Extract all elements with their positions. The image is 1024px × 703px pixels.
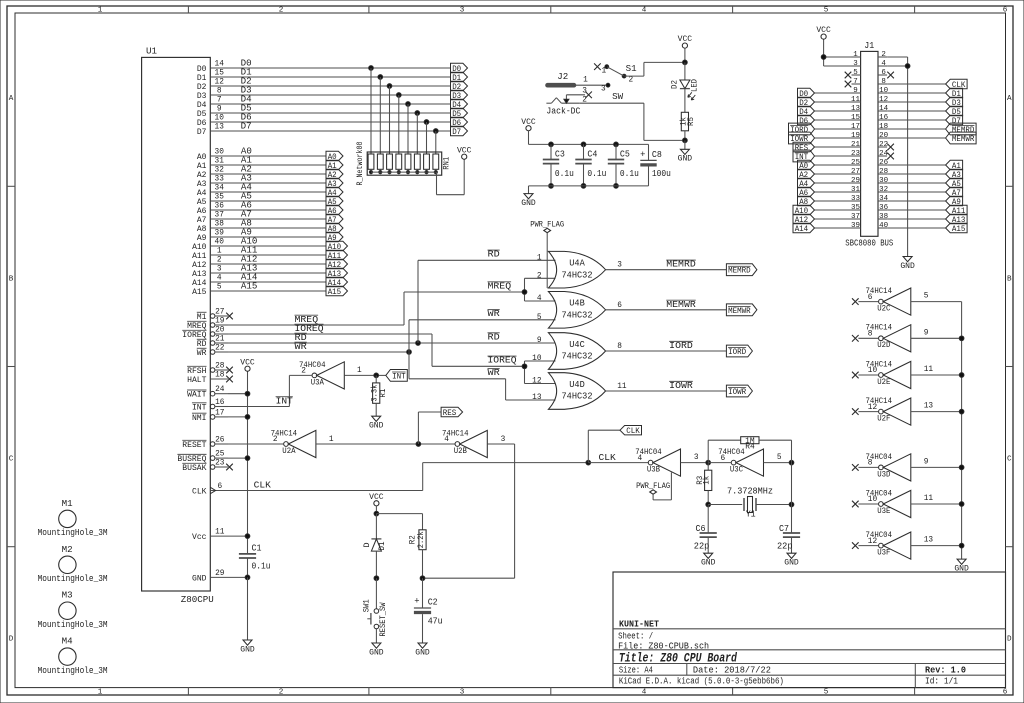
wire IORD to J1 — [815, 128, 852, 130]
junction — [789, 460, 794, 465]
svg-text:10: 10 — [215, 114, 225, 122]
wire D2 to RN1 — [389, 86, 391, 154]
wire U2B in — [423, 444, 515, 578]
wire A10 to J1 — [815, 209, 852, 211]
svg-text:A15: A15 — [328, 287, 342, 297]
svg-text:20: 20 — [215, 326, 225, 334]
svg-text:R4: R4 — [745, 441, 755, 451]
svg-text:C3: C3 — [555, 149, 565, 159]
wire to GND rail — [911, 503, 962, 505]
wire A11 — [228, 254, 326, 256]
svg-text:2: 2 — [273, 436, 278, 444]
svg-text:GND: GND — [192, 573, 207, 583]
svg-text:10: 10 — [868, 367, 878, 375]
wire nc — [858, 301, 878, 303]
svg-text:MEMRD: MEMRD — [666, 260, 696, 270]
svg-text:26: 26 — [879, 159, 889, 167]
global label A15 — [946, 223, 968, 234]
global label A2 — [326, 169, 343, 180]
svg-text:3: 3 — [460, 689, 465, 697]
global label A9 — [326, 232, 343, 243]
svg-text:INT: INT — [192, 402, 207, 412]
U4D pin 13 — [532, 394, 542, 402]
or-gate U4C 74HC32 — [548, 333, 622, 370]
svg-text:1k: 1k — [680, 117, 688, 126]
wire D3 — [228, 94, 451, 96]
svg-text:D7: D7 — [241, 121, 252, 131]
svg-text:7: 7 — [217, 96, 222, 104]
label A14 — [241, 272, 258, 282]
global label A3 — [326, 178, 343, 189]
crystal Y1 7.3728MHz — [708, 486, 791, 519]
svg-text:32: 32 — [879, 186, 888, 194]
wire D4 to J1 — [815, 110, 852, 112]
svg-text:HALT: HALT — [187, 375, 206, 385]
label MEMWR — [666, 300, 696, 310]
global label D3 — [946, 97, 963, 108]
wire A5 from J1 — [887, 182, 946, 184]
svg-text:10: 10 — [868, 496, 878, 504]
global label A14 — [326, 277, 348, 288]
junction — [581, 184, 586, 189]
junction — [420, 576, 425, 581]
wire S1 to VCC — [624, 62, 685, 76]
wire to GND rail — [911, 337, 962, 339]
svg-text:9: 9 — [217, 105, 222, 113]
junction — [369, 66, 374, 71]
U1 pin 9 D5 — [197, 105, 228, 119]
label A15 — [241, 281, 258, 291]
label D1 — [241, 67, 252, 77]
label A7 — [241, 209, 252, 219]
svg-text:6: 6 — [217, 483, 222, 491]
svg-text:15: 15 — [851, 114, 861, 122]
svg-text:13: 13 — [924, 537, 934, 545]
svg-text:6: 6 — [868, 294, 873, 302]
U2A pin 1 label — [329, 436, 334, 444]
wire D7 from J1 — [887, 119, 946, 121]
wire J1 GND — [887, 57, 908, 257]
IC U1 Z80CPU body — [142, 46, 214, 605]
svg-text:C1: C1 — [252, 544, 262, 554]
global label D1 — [451, 72, 468, 83]
svg-text:6: 6 — [617, 302, 622, 310]
svg-text:U2D: U2D — [877, 340, 890, 350]
wire U3C in — [764, 462, 792, 464]
capacitor C6 22p — [694, 505, 717, 554]
svg-text:B: B — [1007, 275, 1012, 283]
global label A5 — [326, 196, 343, 207]
inverter U3D 74HC04 — [866, 452, 911, 481]
wire A0 to J1 — [815, 164, 852, 166]
svg-text:2: 2 — [537, 272, 542, 280]
label A3 — [241, 173, 252, 183]
svg-text:4: 4 — [444, 436, 449, 444]
svg-text:5: 5 — [824, 7, 829, 15]
svg-text:23: 23 — [851, 150, 861, 158]
svg-text:A15: A15 — [952, 224, 966, 234]
svg-text:2: 2 — [279, 689, 284, 697]
svg-text:39: 39 — [215, 229, 225, 237]
svg-text:11: 11 — [851, 96, 861, 104]
U1 pin 2 A12 — [192, 256, 228, 270]
junction — [789, 502, 794, 507]
svg-text:5: 5 — [217, 283, 222, 291]
junction — [821, 55, 826, 60]
svg-text:5: 5 — [777, 454, 782, 462]
U1 pin 36 A6 — [197, 202, 228, 216]
svg-text:A: A — [1007, 95, 1012, 103]
inverter U2B 74HC14 — [442, 428, 487, 457]
svg-text:20: 20 — [879, 132, 889, 140]
svg-text:0.1u: 0.1u — [587, 169, 606, 179]
svg-text:16: 16 — [215, 399, 225, 407]
global label A7 — [946, 187, 963, 198]
global label A10 — [326, 241, 348, 252]
svg-text:8: 8 — [881, 78, 886, 86]
svg-text:MountingHole_3M: MountingHole_3M — [38, 620, 108, 630]
svg-text:14: 14 — [215, 60, 225, 68]
svg-text:3.3k: 3.3k — [372, 384, 380, 401]
junction — [614, 184, 619, 189]
svg-text:Rev: 1.0: Rev: 1.0 — [925, 664, 966, 675]
junction — [245, 575, 250, 580]
junction — [959, 502, 964, 507]
svg-text:74HC32: 74HC32 — [562, 310, 593, 320]
wire CLK from U1 — [228, 463, 588, 491]
global label MEMRD — [946, 123, 977, 135]
ground at C7 — [784, 553, 799, 567]
label A0 — [241, 146, 252, 156]
global label D7 — [451, 126, 468, 137]
wire D3 to RN1 — [398, 95, 400, 154]
junction — [415, 111, 420, 116]
svg-text:1: 1 — [583, 77, 588, 85]
global label IOWR — [789, 132, 815, 144]
inverter U3A 74HC04 — [299, 360, 344, 389]
svg-text:28: 28 — [215, 362, 225, 370]
wire A9 — [228, 236, 326, 238]
svg-text:2: 2 — [881, 51, 886, 59]
wire D2 — [228, 85, 451, 87]
svg-text:+: + — [640, 150, 645, 160]
resistor R1 3.3k — [372, 375, 388, 416]
label A4 — [241, 182, 252, 192]
svg-text:34: 34 — [215, 184, 225, 192]
svg-text:J2: J2 — [557, 72, 568, 82]
global label A8 — [798, 196, 815, 207]
svg-text:3: 3 — [601, 85, 606, 93]
svg-text:D7: D7 — [197, 127, 207, 137]
global label A6 — [798, 187, 815, 198]
resistor R3 1k — [697, 463, 712, 505]
wire CLK from J1 — [887, 83, 946, 85]
U1 pin 18 HALT — [187, 371, 233, 385]
svg-text:M3: M3 — [62, 591, 73, 601]
U2E pin 11 label — [924, 366, 934, 374]
wire D3 from J1 — [887, 101, 946, 103]
U3C pin 5 label — [777, 454, 782, 462]
wire A2 — [228, 173, 326, 175]
svg-text:13: 13 — [532, 394, 542, 402]
wire MEMRD — [606, 269, 727, 271]
svg-text:34: 34 — [879, 195, 889, 203]
connector J1 SBC8080 BUS — [845, 41, 893, 248]
capacitor C4 0.1u — [575, 144, 606, 186]
svg-text:2: 2 — [629, 77, 634, 85]
svg-text:74HC32: 74HC32 — [562, 352, 593, 362]
U1 pin 37 A7 — [197, 211, 228, 225]
svg-text:27: 27 — [851, 168, 860, 176]
wire C7 node — [791, 463, 793, 533]
inverter U3B 74HC04 — [635, 447, 680, 476]
U1 pin 30 A0 — [197, 148, 228, 162]
U3D pin 9 label — [924, 458, 929, 466]
junction — [522, 364, 527, 369]
wire U2A in — [316, 443, 455, 445]
U1 pin 1 A11 — [192, 247, 228, 261]
wire A1 — [228, 164, 326, 166]
global label A3 — [946, 169, 963, 180]
no-connect — [852, 501, 859, 508]
label D3 — [241, 85, 252, 95]
svg-text:9: 9 — [924, 329, 929, 337]
global label A15 — [326, 286, 348, 297]
wire D6 to J1 — [815, 119, 852, 121]
svg-text:U2B: U2B — [454, 446, 467, 456]
wire RES to J1 — [815, 146, 852, 148]
svg-text:26: 26 — [215, 436, 225, 444]
junction — [683, 138, 688, 143]
svg-text:12: 12 — [532, 378, 542, 386]
svg-text:D7: D7 — [452, 127, 461, 137]
svg-text:INT: INT — [392, 371, 406, 381]
svg-text:11: 11 — [924, 366, 934, 374]
svg-text:Jack-DC: Jack-DC — [546, 107, 581, 117]
capacitor C5 0.1u — [608, 144, 639, 186]
no-connect J2 pin3 — [585, 92, 592, 99]
svg-text:KiCad E.D.A. kicad (5.0.0-3-g: KiCad E.D.A. kicad (5.0.0-3-g5ebb6b6) — [619, 677, 784, 687]
global label A13 — [326, 268, 348, 279]
capacitor C2 47u — [414, 578, 443, 643]
power flag PWR_FLAG — [530, 220, 564, 289]
wire D5 to RN1 — [416, 113, 418, 154]
svg-text:C6: C6 — [696, 524, 706, 534]
U1 pin 4 A14 — [192, 274, 228, 288]
U1 pin 31 A1 — [197, 157, 228, 171]
global label CLK — [946, 79, 968, 90]
svg-text:3: 3 — [617, 262, 622, 270]
wire cap rail bottom — [529, 186, 649, 194]
label A2 — [241, 164, 252, 174]
global label RES — [441, 407, 463, 418]
U1 pin 15 D1 — [197, 69, 228, 83]
svg-text:2: 2 — [279, 7, 284, 15]
svg-text:U4C: U4C — [569, 340, 585, 350]
global label A5 — [946, 178, 963, 189]
wire GND rail — [961, 302, 963, 559]
svg-text:3: 3 — [853, 60, 858, 68]
junction — [406, 102, 411, 107]
wire A13 from J1 — [887, 218, 946, 220]
junction — [959, 465, 964, 470]
label RD — [295, 333, 307, 343]
LED D2 — [672, 62, 700, 112]
svg-text:MEMWR: MEMWR — [952, 134, 975, 144]
wire J2 pin2 — [580, 103, 685, 140]
svg-text:U3D: U3D — [877, 469, 890, 479]
svg-text:M1: M1 — [62, 499, 73, 509]
svg-text:25: 25 — [215, 451, 225, 459]
svg-text:6: 6 — [881, 69, 886, 77]
svg-text:14: 14 — [879, 105, 889, 113]
svg-text:MountingHole_3M: MountingHole_3M — [38, 528, 108, 538]
U1 pin 25 BUSREQ — [177, 451, 228, 465]
wire to GND rail — [911, 466, 962, 468]
inverter U3E 74HC04 — [866, 488, 911, 517]
ground at C6 — [701, 553, 716, 567]
svg-text:File: Z80-CPUB.sch: File: Z80-CPUB.sch — [618, 641, 709, 651]
svg-text:8: 8 — [217, 87, 222, 95]
svg-text:1: 1 — [853, 51, 858, 59]
global label A4 — [326, 187, 343, 198]
junction — [581, 142, 586, 147]
svg-text:Vcc: Vcc — [192, 532, 207, 542]
svg-text:24: 24 — [215, 386, 225, 394]
U1 pin 26 RESET — [182, 436, 228, 450]
wire MEMWR from J1 — [887, 137, 946, 139]
wire nc — [858, 545, 878, 547]
svg-text:VCC: VCC — [457, 145, 472, 155]
wire A15 from J1 — [887, 227, 946, 229]
U2C pin 5 label — [924, 293, 929, 301]
label MREQ at U4A — [488, 281, 512, 291]
resistor network RN1 R_Network08 — [355, 142, 451, 186]
global label D6 — [798, 115, 815, 126]
global label MEMRD — [726, 264, 757, 276]
label A5 — [241, 191, 252, 201]
ground at C1 — [240, 640, 255, 654]
power VCC at J1 — [816, 25, 831, 39]
wire A1 from J1 — [887, 164, 946, 166]
ground at J1 — [900, 257, 915, 271]
wire D6 to RN1 — [426, 122, 428, 154]
svg-text:13: 13 — [924, 403, 934, 411]
wire A14 to J1 — [815, 227, 852, 229]
global label D1 — [946, 88, 963, 99]
U1 pin 20 IOREQ — [182, 326, 228, 340]
wire RES label — [418, 412, 441, 444]
wire D0 — [228, 67, 451, 69]
U1 pin 29 GND — [192, 570, 228, 584]
svg-text:U2F: U2F — [877, 414, 890, 424]
wire GND pin — [228, 576, 248, 578]
svg-text:GND: GND — [240, 644, 255, 654]
svg-text:INT: INT — [276, 396, 294, 406]
wire MREQ — [228, 292, 525, 325]
svg-text:22: 22 — [879, 141, 888, 149]
junction — [245, 391, 250, 396]
svg-text:CLK: CLK — [626, 426, 640, 436]
svg-text:1: 1 — [217, 247, 222, 255]
svg-text:IORD: IORD — [669, 341, 693, 351]
svg-text:Size: A4: Size: A4 — [619, 665, 653, 675]
U1 pin 7 D4 — [197, 96, 228, 110]
label IOREQ at U4C — [488, 356, 517, 366]
resistor R2 2.2k — [410, 530, 427, 578]
svg-text:MEMRD: MEMRD — [728, 266, 751, 276]
wire INT to J1 — [815, 155, 852, 157]
global label A11 — [326, 250, 348, 261]
wire IOWR — [606, 390, 727, 392]
U1 pin 10 D6 — [197, 114, 228, 128]
svg-text:5: 5 — [824, 689, 829, 697]
U1 pin 19 MREQ — [187, 317, 228, 331]
svg-text:0.1u: 0.1u — [555, 169, 574, 179]
svg-text:5: 5 — [924, 293, 929, 301]
svg-text:8: 8 — [617, 343, 622, 351]
svg-text:27: 27 — [215, 308, 225, 316]
svg-text:IOWR: IOWR — [728, 387, 746, 397]
label WR at U4D — [488, 368, 501, 378]
svg-text:GND: GND — [521, 198, 536, 208]
wire to GND — [684, 140, 686, 149]
wire IOREQ — [228, 334, 525, 366]
svg-text:+: + — [414, 596, 419, 606]
U1 pin 12 D2 — [197, 78, 228, 92]
label A10 — [241, 236, 258, 246]
svg-text:U4D: U4D — [569, 380, 585, 390]
svg-text:1: 1 — [98, 689, 103, 697]
wire A10 — [228, 245, 326, 247]
svg-text:MEMWR: MEMWR — [666, 300, 696, 310]
junction — [586, 460, 591, 465]
svg-text:4: 4 — [881, 60, 886, 68]
wire D4 to RN1 — [407, 104, 409, 154]
svg-text:RN1: RN1 — [441, 157, 451, 170]
svg-text:U1: U1 — [146, 46, 158, 57]
wire IORD — [606, 350, 727, 352]
wire A9 from J1 — [887, 200, 946, 202]
svg-text:U3A: U3A — [311, 377, 325, 387]
wire cap rail top — [529, 143, 649, 145]
junction — [959, 409, 964, 414]
U1 pin 33 A3 — [197, 175, 228, 189]
U1 pin 24 WAIT — [187, 386, 228, 400]
svg-text:C: C — [1007, 456, 1012, 464]
svg-text:GND: GND — [369, 647, 384, 657]
global label D3 — [451, 90, 468, 101]
inverter U2C 74HC14 — [866, 286, 911, 315]
svg-text:17: 17 — [215, 409, 225, 417]
power VCC at LED — [678, 34, 693, 62]
svg-text:0.1u: 0.1u — [252, 562, 271, 572]
global label D2 — [798, 97, 815, 108]
U1 pin 3 A13 — [192, 265, 228, 279]
global label A11 — [946, 205, 968, 216]
label RD at U4A — [488, 250, 500, 260]
svg-text:WR: WR — [488, 309, 501, 319]
wire A4 to J1 — [815, 182, 852, 184]
label A1 — [241, 155, 252, 165]
J1 pins 1-40 — [851, 51, 889, 230]
svg-text:U3C: U3C — [730, 465, 743, 475]
svg-text:8: 8 — [868, 460, 873, 468]
wire CLK to U3B — [588, 462, 648, 464]
wire CLK label — [588, 430, 620, 462]
global label D2 — [451, 81, 468, 92]
switch SW1 RESET_SW — [364, 578, 388, 643]
